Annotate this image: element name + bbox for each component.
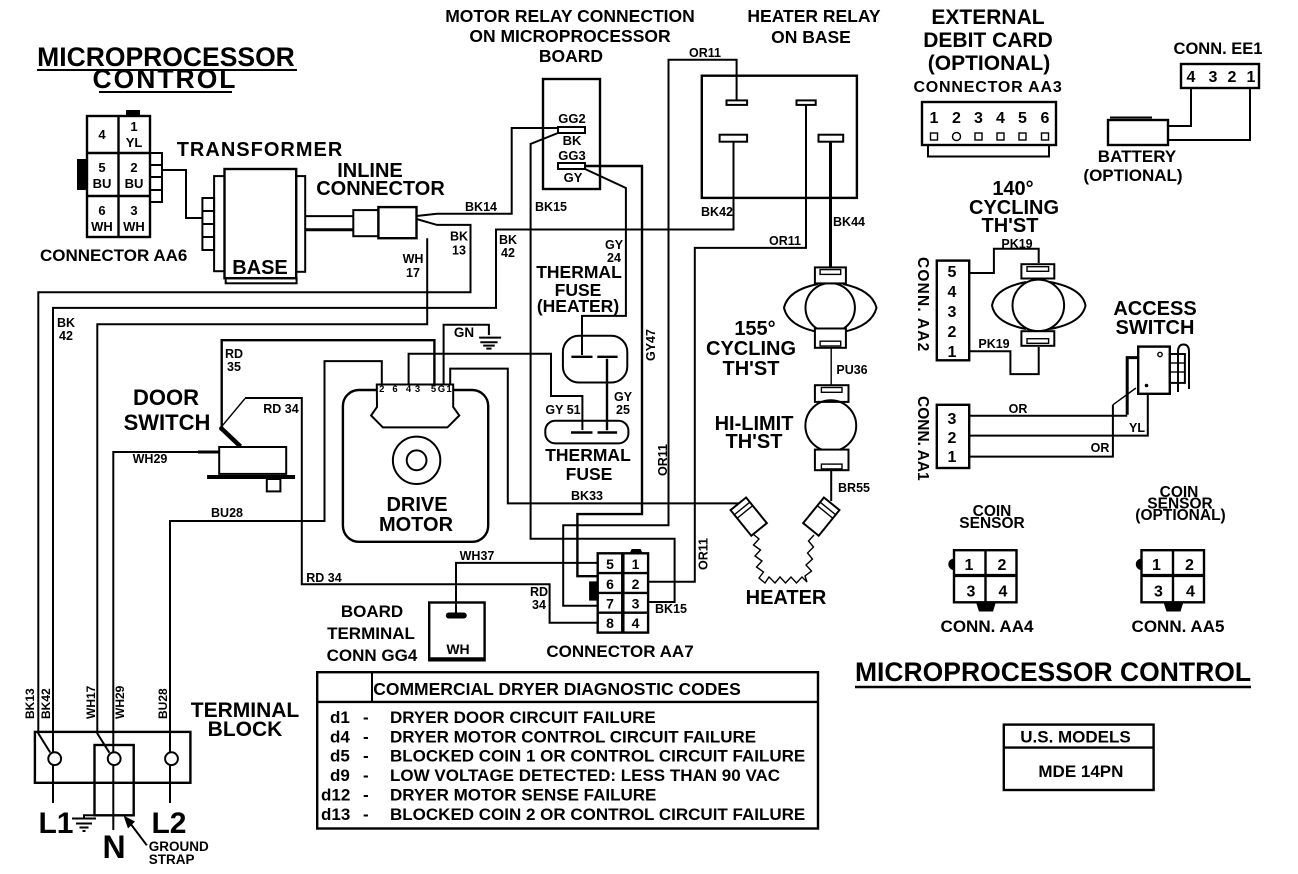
svg-text:5: 5 bbox=[98, 160, 105, 175]
svg-text:3: 3 bbox=[1154, 584, 1163, 601]
svg-text:3: 3 bbox=[967, 584, 976, 601]
svg-text:GG2: GG2 bbox=[558, 111, 585, 126]
coin sensor connector AA5 (optional) bbox=[1132, 484, 1226, 636]
svg-text:(HEATER): (HEATER) bbox=[537, 296, 619, 316]
svg-text:(OPTIONAL): (OPTIONAL) bbox=[928, 52, 1050, 75]
battery (optional) bbox=[1083, 118, 1182, 186]
drive motor bbox=[343, 384, 488, 542]
svg-text:WH29: WH29 bbox=[113, 685, 127, 719]
svg-text:d9: d9 bbox=[330, 766, 350, 785]
svg-text:OR: OR bbox=[1091, 441, 1110, 455]
wire GY25 (fuse to fuse) bbox=[606, 359, 608, 431]
svg-text:N: N bbox=[102, 829, 125, 865]
svg-text:3: 3 bbox=[974, 110, 983, 127]
svg-text:MOTOR RELAY CONNECTION: MOTOR RELAY CONNECTION bbox=[445, 6, 695, 26]
svg-text:CONN GG4: CONN GG4 bbox=[327, 646, 418, 665]
wire BK33 (motor pin 1 to heater) bbox=[450, 369, 738, 504]
svg-text:BASE: BASE bbox=[232, 257, 288, 279]
svg-text:6: 6 bbox=[98, 203, 105, 218]
svg-text:MOTOR: MOTOR bbox=[379, 514, 454, 536]
svg-text:GY: GY bbox=[605, 238, 624, 252]
svg-text:BK33: BK33 bbox=[571, 489, 603, 503]
motor relay board box bbox=[445, 6, 695, 189]
svg-text:OR: OR bbox=[1009, 402, 1028, 416]
wire BK15 (GG2 to connector AA7 pin 3) bbox=[531, 133, 675, 602]
AA3 pin 1 bbox=[931, 133, 938, 140]
svg-text:BLOCK: BLOCK bbox=[208, 718, 283, 741]
svg-text:17: 17 bbox=[406, 266, 420, 280]
coin sensor connector AA4 bbox=[941, 503, 1034, 636]
svg-text:TRANSFORMER: TRANSFORMER bbox=[177, 139, 344, 161]
svg-text:BK: BK bbox=[57, 316, 75, 330]
wire BK44 (relay contact 4 to 155 cycling thermostat) bbox=[829, 142, 832, 268]
wire WH37 (board terminal GG4 to connector AA7 pin 5) bbox=[456, 563, 598, 613]
svg-text:3: 3 bbox=[948, 304, 957, 321]
svg-text:42: 42 bbox=[59, 329, 73, 343]
svg-text:CONN. AA1: CONN. AA1 bbox=[914, 396, 931, 481]
svg-text:2: 2 bbox=[952, 110, 961, 127]
svg-text:BR55: BR55 bbox=[838, 481, 870, 495]
svg-text:6: 6 bbox=[606, 576, 614, 592]
svg-text:WH: WH bbox=[446, 641, 469, 657]
svg-text:BU28: BU28 bbox=[211, 506, 243, 520]
svg-text:OR11: OR11 bbox=[656, 444, 670, 476]
svg-text:3: 3 bbox=[415, 384, 420, 395]
heater relay on base bbox=[702, 6, 881, 198]
svg-text:5: 5 bbox=[1018, 110, 1027, 127]
svg-text:2: 2 bbox=[1185, 557, 1194, 574]
commercial dryer diagnostic codes table bbox=[317, 672, 818, 828]
title MICROPROCESSOR CONTROL (bottom right) bbox=[855, 657, 1251, 687]
svg-text:34: 34 bbox=[532, 598, 546, 612]
svg-text:GY 51: GY 51 bbox=[545, 403, 580, 417]
svg-text:7: 7 bbox=[606, 596, 614, 612]
svg-text:BK42: BK42 bbox=[39, 688, 53, 719]
svg-text:8: 8 bbox=[606, 615, 614, 631]
svg-text:PU36: PU36 bbox=[836, 363, 867, 377]
svg-text:1: 1 bbox=[130, 119, 137, 134]
svg-text:L2: L2 bbox=[151, 807, 186, 840]
svg-text:d1: d1 bbox=[330, 708, 350, 727]
svg-text:WH17: WH17 bbox=[84, 685, 98, 719]
svg-text:BLOCKED COIN 2 OR CONTROL CIRC: BLOCKED COIN 2 OR CONTROL CIRCUIT FAILUR… bbox=[390, 805, 805, 824]
svg-text:CONNECTOR AA6: CONNECTOR AA6 bbox=[40, 246, 187, 265]
svg-text:BOARD: BOARD bbox=[341, 602, 403, 621]
svg-text:GY: GY bbox=[614, 390, 633, 404]
svg-text:BU: BU bbox=[125, 176, 144, 191]
board terminal conn GG4 bbox=[327, 602, 485, 665]
svg-text:SWITCH: SWITCH bbox=[1116, 317, 1195, 339]
terminal GG2 bbox=[558, 127, 585, 133]
terminal block bbox=[23, 685, 299, 867]
wire GY24 (GG3 to thermal fuse heater) bbox=[582, 169, 626, 355]
svg-text:d13: d13 bbox=[321, 805, 350, 824]
wire GY47 (GG3 to connector AA7 pin 6) bbox=[577, 166, 642, 576]
svg-text:BK: BK bbox=[563, 133, 582, 148]
transformer bbox=[177, 139, 354, 283]
AA3 pin 3 bbox=[975, 133, 982, 140]
wire BK42 (heater relay to terminal block L1) bbox=[53, 142, 734, 803]
wire OR (AA1 pin 3 to access switch) bbox=[1127, 358, 1138, 415]
svg-text:3: 3 bbox=[1209, 69, 1218, 86]
svg-text:2: 2 bbox=[948, 324, 957, 341]
svg-text:BK15: BK15 bbox=[535, 200, 567, 214]
connector AA6 bbox=[40, 110, 187, 265]
thermal fuse (heater) bbox=[536, 262, 627, 383]
svg-text:U.S. MODELS: U.S. MODELS bbox=[1020, 728, 1131, 747]
access switch bbox=[1113, 298, 1196, 394]
svg-text:HEATER: HEATER bbox=[746, 587, 827, 609]
heater element bbox=[731, 497, 840, 583]
wire OR11 (relay contact 2 to connector AA7 pin 2) bbox=[649, 105, 806, 582]
svg-text:L1: L1 bbox=[38, 807, 73, 840]
svg-text:WH: WH bbox=[91, 219, 113, 234]
wire RD34 (door switch to connector AA7 pin 8) bbox=[221, 399, 245, 428]
svg-text:4: 4 bbox=[1187, 69, 1196, 86]
wire WH17 (inline connector to terminal block lug) bbox=[97, 238, 427, 753]
wire PK19 (AA2 pin 5 to thermostat top) bbox=[969, 249, 1038, 273]
door switch bbox=[124, 385, 295, 491]
AA3 pin 2 bbox=[953, 133, 961, 141]
svg-text:WH: WH bbox=[403, 252, 424, 266]
svg-text:OR11: OR11 bbox=[689, 46, 721, 60]
svg-text:STRAP: STRAP bbox=[149, 852, 195, 867]
svg-text:1: 1 bbox=[1247, 69, 1256, 86]
svg-text:3: 3 bbox=[632, 596, 640, 612]
svg-text:GY47: GY47 bbox=[644, 329, 658, 361]
svg-text:RD 34: RD 34 bbox=[263, 402, 298, 416]
svg-text:2: 2 bbox=[1228, 69, 1237, 86]
svg-text:THERMAL: THERMAL bbox=[536, 262, 622, 282]
svg-text:4: 4 bbox=[948, 284, 957, 301]
wire AA6 to transformer bbox=[162, 170, 202, 218]
svg-text:ON MICROPROCESSOR: ON MICROPROCESSOR bbox=[469, 26, 671, 46]
svg-text:1: 1 bbox=[632, 556, 640, 572]
svg-text:1: 1 bbox=[965, 557, 974, 574]
svg-text:1: 1 bbox=[930, 110, 939, 127]
ground bbox=[479, 338, 501, 349]
svg-text:BK42: BK42 bbox=[701, 205, 733, 219]
svg-text:RD: RD bbox=[530, 585, 548, 599]
terminal GG3 bbox=[558, 163, 585, 169]
svg-text:3: 3 bbox=[130, 203, 137, 218]
svg-text:SENSOR: SENSOR bbox=[959, 515, 1024, 532]
svg-text:CONNECTOR: CONNECTOR bbox=[316, 178, 445, 200]
svg-text:G: G bbox=[438, 384, 445, 395]
svg-text:EXTERNAL: EXTERNAL bbox=[931, 6, 1044, 29]
thermal fuse bbox=[545, 421, 631, 484]
svg-text:TERMINAL: TERMINAL bbox=[327, 624, 415, 643]
svg-text:2: 2 bbox=[379, 384, 384, 395]
svg-text:CONNECTOR AA3: CONNECTOR AA3 bbox=[913, 79, 1062, 96]
svg-text:BK15: BK15 bbox=[655, 602, 687, 616]
wire PK19 (AA2 pin 1 to thermostat bottom) bbox=[969, 347, 1038, 374]
svg-text:DRIVE: DRIVE bbox=[386, 494, 447, 516]
AA3 pin 6 bbox=[1042, 133, 1049, 140]
svg-text:13: 13 bbox=[452, 244, 466, 258]
svg-text:BK: BK bbox=[499, 233, 517, 247]
relay contact bar 3 bbox=[720, 135, 748, 142]
svg-text:TH'ST: TH'ST bbox=[723, 358, 780, 380]
wire BU28 (motor pin 2 to terminal block L2) bbox=[170, 361, 382, 803]
svg-text:6: 6 bbox=[392, 384, 397, 395]
svg-text:BLOCKED COIN 1 OR CONTROL CIRC: BLOCKED COIN 1 OR CONTROL CIRCUIT FAILUR… bbox=[390, 747, 805, 766]
svg-text:DRYER MOTOR CONTROL CIRCUIT FA: DRYER MOTOR CONTROL CIRCUIT FAILURE bbox=[390, 728, 756, 747]
svg-text:BK: BK bbox=[450, 230, 468, 244]
svg-text:GG3: GG3 bbox=[558, 148, 585, 163]
svg-text:4: 4 bbox=[999, 584, 1008, 601]
svg-text:ON BASE: ON BASE bbox=[771, 27, 851, 47]
svg-text:4: 4 bbox=[98, 127, 106, 142]
svg-text:3: 3 bbox=[948, 411, 957, 428]
svg-text:CYCLING: CYCLING bbox=[706, 338, 796, 360]
svg-text:MICROPROCESSOR CONTROL: MICROPROCESSOR CONTROL bbox=[855, 657, 1251, 687]
svg-text:CONN. AA2: CONN. AA2 bbox=[914, 257, 931, 352]
svg-text:d12: d12 bbox=[321, 786, 350, 805]
wire GN (motor pin G to ground) bbox=[444, 325, 489, 384]
svg-text:2: 2 bbox=[998, 557, 1007, 574]
140 deg cycling thermostat bbox=[969, 178, 1086, 346]
svg-text:COMMERCIAL DRYER DIAGNOSTIC CO: COMMERCIAL DRYER DIAGNOSTIC CODES bbox=[373, 679, 741, 699]
svg-text:YL: YL bbox=[126, 135, 143, 150]
svg-text:WH: WH bbox=[123, 219, 145, 234]
svg-text:5: 5 bbox=[431, 384, 437, 395]
svg-text:RD 34: RD 34 bbox=[306, 571, 341, 585]
svg-text:THERMAL: THERMAL bbox=[545, 445, 631, 465]
connector EE1 bbox=[1174, 40, 1263, 88]
svg-text:5: 5 bbox=[948, 264, 957, 281]
svg-text:BK14: BK14 bbox=[465, 200, 497, 214]
svg-text:TH'ST: TH'ST bbox=[726, 431, 783, 453]
inline connector bbox=[316, 160, 445, 238]
svg-text:BK13: BK13 bbox=[23, 688, 37, 719]
svg-text:-: - bbox=[363, 805, 369, 824]
svg-text:1: 1 bbox=[948, 344, 957, 361]
svg-text:CONN. AA4: CONN. AA4 bbox=[941, 617, 1034, 636]
svg-text:6: 6 bbox=[1041, 110, 1050, 127]
svg-text:CONN. EE1: CONN. EE1 bbox=[1174, 40, 1263, 58]
svg-text:FUSE: FUSE bbox=[566, 464, 613, 484]
svg-text:TH'ST: TH'ST bbox=[982, 215, 1039, 237]
svg-text:-: - bbox=[363, 766, 369, 785]
svg-text:-: - bbox=[363, 708, 369, 727]
svg-text:-: - bbox=[363, 747, 369, 766]
svg-text:2: 2 bbox=[130, 160, 137, 175]
connector AA7 bbox=[546, 549, 693, 661]
svg-text:1: 1 bbox=[1152, 557, 1161, 574]
svg-text:YL: YL bbox=[1129, 421, 1145, 435]
wire EE1 pin 1 to battery bbox=[1168, 88, 1250, 140]
svg-text:4: 4 bbox=[406, 384, 412, 395]
lug L2 bbox=[165, 752, 178, 765]
relay contact bar 2 bbox=[797, 100, 816, 105]
svg-text:BU: BU bbox=[93, 176, 112, 191]
svg-text:35: 35 bbox=[227, 360, 241, 374]
svg-text:SWITCH: SWITCH bbox=[124, 410, 211, 435]
svg-text:155°: 155° bbox=[734, 318, 775, 340]
155 deg cycling thermostat bbox=[706, 267, 877, 380]
svg-text:d5: d5 bbox=[330, 747, 350, 766]
connector AA1 bbox=[914, 396, 969, 481]
svg-text:RD: RD bbox=[225, 347, 243, 361]
lug L1 bbox=[48, 752, 61, 765]
ground bbox=[72, 815, 96, 831]
svg-text:BOARD: BOARD bbox=[539, 46, 603, 66]
svg-text:MDE 14PN: MDE 14PN bbox=[1038, 762, 1123, 781]
relay contact bar 4 bbox=[819, 135, 844, 142]
svg-text:WH29: WH29 bbox=[133, 452, 168, 466]
wire PU36 bbox=[830, 348, 832, 385]
svg-text:HEATER RELAY: HEATER RELAY bbox=[747, 6, 881, 26]
svg-text:BU28: BU28 bbox=[156, 688, 170, 719]
svg-text:DRYER MOTOR SENSE FAILURE: DRYER MOTOR SENSE FAILURE bbox=[390, 786, 656, 805]
svg-text:4: 4 bbox=[632, 615, 640, 631]
svg-text:CONN. AA5: CONN. AA5 bbox=[1132, 617, 1225, 636]
svg-text:GN: GN bbox=[454, 325, 474, 340]
wire EE1 pin 4 to battery bbox=[1168, 88, 1191, 126]
svg-text:(OPTIONAL): (OPTIONAL) bbox=[1135, 507, 1225, 524]
lug N bbox=[108, 752, 121, 765]
svg-text:WH37: WH37 bbox=[460, 549, 495, 563]
wire BR55 (hi-limit to heater) bbox=[830, 470, 832, 501]
svg-text:-: - bbox=[363, 786, 369, 805]
external debit card connector AA3 bbox=[913, 6, 1062, 157]
svg-text:2: 2 bbox=[632, 576, 640, 592]
svg-text:BATTERY: BATTERY bbox=[1098, 147, 1177, 166]
wire GY51 (motor pin 4 to thermal fuse) bbox=[409, 354, 583, 430]
svg-text:DOOR: DOOR bbox=[133, 385, 199, 410]
svg-text:1: 1 bbox=[948, 449, 957, 466]
svg-text:BK44: BK44 bbox=[833, 215, 865, 229]
svg-text:d4: d4 bbox=[330, 728, 350, 747]
wire RD35 (motor pin 5 to door switch) bbox=[222, 340, 435, 427]
AA3 pin 5 bbox=[1019, 133, 1026, 140]
wire BK13 (inline connector to terminal block L1 lug) bbox=[38, 219, 470, 753]
ground strap callout bbox=[130, 823, 147, 845]
wire BK14 (inline connector to GG2) bbox=[417, 128, 559, 216]
hi-limit thermostat bbox=[715, 385, 857, 470]
svg-text:4: 4 bbox=[1186, 584, 1195, 601]
svg-text:4: 4 bbox=[996, 110, 1005, 127]
wire OR (AA1 pin 1) bbox=[969, 405, 1113, 457]
wire YL (AA1 pin 2 to access switch) bbox=[969, 394, 1148, 436]
relay contact bar 1 bbox=[727, 100, 748, 105]
svg-text:DRYER DOOR CIRCUIT FAILURE: DRYER DOOR CIRCUIT FAILURE bbox=[390, 708, 656, 727]
svg-text:OR11: OR11 bbox=[697, 538, 711, 570]
svg-text:CONNECTOR AA7: CONNECTOR AA7 bbox=[546, 642, 693, 661]
svg-text:(OPTIONAL): (OPTIONAL) bbox=[1083, 166, 1182, 185]
wire OR11 (relay coil to connector AA7 pin 7) bbox=[563, 60, 736, 606]
U.S. models box bbox=[1004, 725, 1154, 790]
wire WH29 (terminal block N to door switch) bbox=[113, 452, 219, 830]
svg-text:LOW VOLTAGE DETECTED: LESS THA: LOW VOLTAGE DETECTED: LESS THAN 90 VAC bbox=[390, 766, 780, 785]
AA3 pin 4 bbox=[997, 133, 1004, 140]
svg-text:42: 42 bbox=[501, 246, 515, 260]
connector AA2 bbox=[914, 257, 969, 361]
svg-text:25: 25 bbox=[616, 403, 630, 417]
svg-text:CONTROL: CONTROL bbox=[92, 64, 237, 94]
svg-text:GY: GY bbox=[564, 170, 583, 185]
title MICROPROCESSOR CONTROL (top left) bbox=[37, 42, 297, 94]
svg-text:5: 5 bbox=[606, 556, 614, 572]
svg-text:1: 1 bbox=[446, 384, 452, 395]
svg-text:DEBIT CARD: DEBIT CARD bbox=[923, 29, 1053, 52]
svg-text:PK19: PK19 bbox=[978, 337, 1009, 351]
svg-text:OR11: OR11 bbox=[769, 234, 801, 248]
svg-text:-: - bbox=[363, 728, 369, 747]
svg-text:2: 2 bbox=[948, 430, 957, 447]
